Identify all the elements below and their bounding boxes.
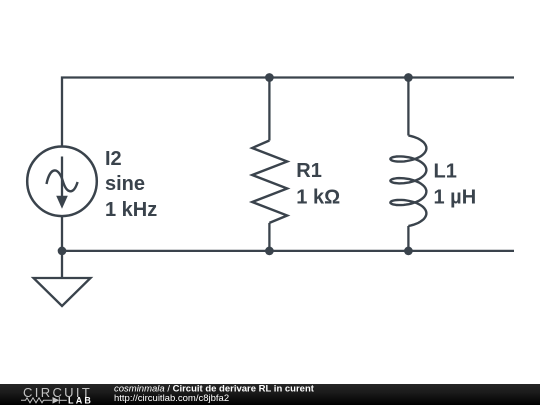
svg-text:1 µH: 1 µH [434,187,477,209]
wire bottom rail [62,250,514,252]
wire bottom rail to ground [61,251,63,278]
current source I2 circle [27,147,97,217]
svg-text:I2: I2 [105,148,122,170]
junction dot bottom rail / source-ground [58,247,67,256]
wire from source bottom to bottom rail [61,216,63,251]
svg-text:L1: L1 [434,161,457,183]
CircuitLab logo resistor squiggle wire [21,397,67,404]
junction dot bottom rail / R1 [265,247,274,256]
wire top rail to inductor L1 [407,78,409,136]
inductor L1 coil [390,136,426,227]
resistor R1 zigzag [252,141,287,223]
svg-text:LAB: LAB [68,395,93,405]
svg-text:1 kHz: 1 kHz [105,199,157,221]
junction dot top rail / R1 [265,73,274,82]
junction dot top rail / L1 [404,73,413,82]
svg-text:1 kΩ: 1 kΩ [296,186,340,208]
wire top rail with left corner down to source [62,78,514,147]
wire inductor L1 to bottom rail [407,226,409,251]
svg-text:sine: sine [105,173,145,195]
svg-text:R1: R1 [296,160,322,182]
CircuitLab logo diode triangle [53,397,60,404]
junction dot bottom rail / L1 [404,247,413,256]
svg-text:http://circuitlab.com/c8jbfa2: http://circuitlab.com/c8jbfa2 [114,393,229,404]
wire resistor R1 to bottom rail [268,223,270,251]
current source I2 arrow [56,157,68,209]
ground [34,278,91,306]
current source I2 sine wave [47,170,78,191]
wire top rail to resistor R1 [268,78,270,141]
